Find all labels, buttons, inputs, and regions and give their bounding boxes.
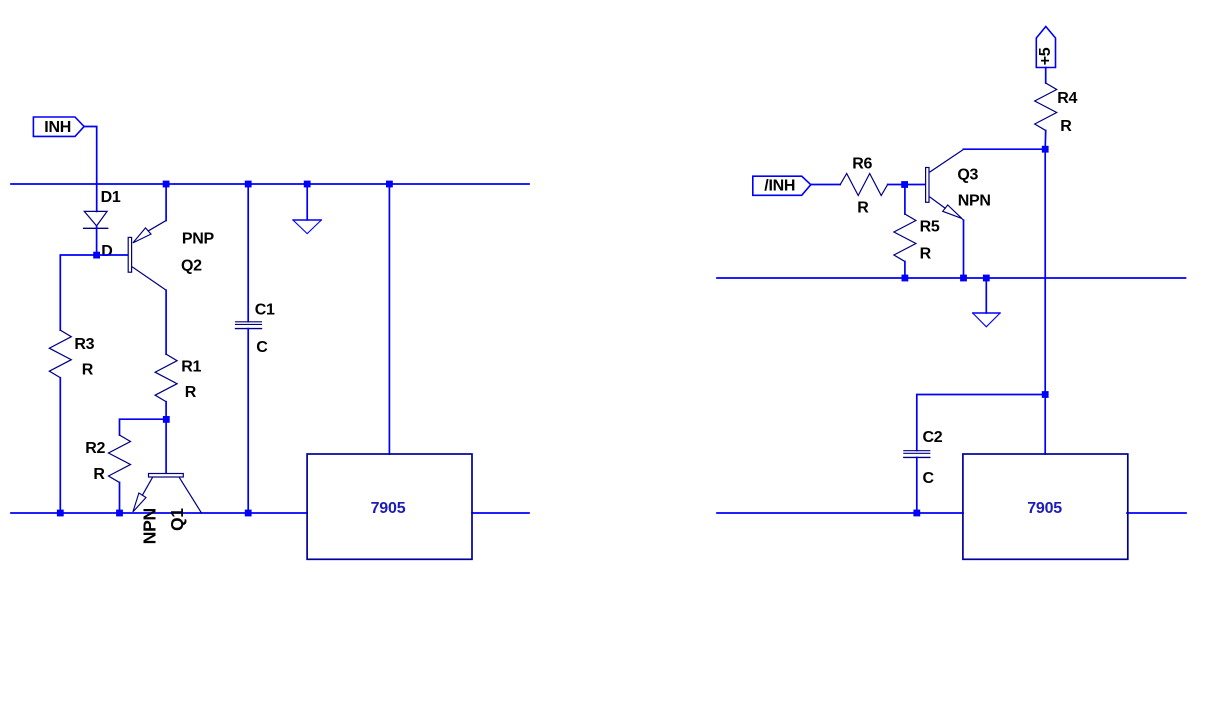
resistor R5 xyxy=(894,214,940,262)
transistor Q1 xyxy=(133,474,202,545)
junction mid rail at R5 xyxy=(902,275,909,282)
supply +5 xyxy=(1036,27,1055,68)
transistor Q2 xyxy=(128,221,214,291)
svg-text:Q3: Q3 xyxy=(957,166,978,183)
svg-text:C: C xyxy=(256,339,268,356)
svg-text:Q2: Q2 xyxy=(181,257,202,274)
wire Q3 collector to node xyxy=(963,148,1045,150)
wire R1 to node xyxy=(165,402,167,420)
resistor R3 xyxy=(49,330,94,378)
wire Q3 emitter to mid rail xyxy=(963,220,965,278)
wire R4 to node xyxy=(1044,131,1047,150)
regulator U1 7905 left xyxy=(307,454,472,559)
transistor Q3 xyxy=(926,150,991,221)
wire from INH xyxy=(84,127,97,212)
svg-text:D: D xyxy=(101,243,112,260)
wire +5 to R4 xyxy=(1045,68,1047,84)
capacitor C1 xyxy=(236,184,276,513)
svg-text:R: R xyxy=(82,362,94,379)
wire output right xyxy=(1127,512,1186,514)
svg-text:NPN: NPN xyxy=(139,508,159,544)
resistor R2 xyxy=(85,435,130,483)
svg-text:C: C xyxy=(923,470,935,487)
svg-text:R: R xyxy=(1060,118,1072,135)
svg-text:R6: R6 xyxy=(852,155,872,172)
wire node to Q1 base xyxy=(165,419,167,473)
junction top rail at C1 xyxy=(245,181,252,188)
svg-text:R2: R2 xyxy=(85,440,105,457)
svg-text:R: R xyxy=(920,245,932,262)
wire node to R2 xyxy=(120,419,167,435)
svg-text:7905: 7905 xyxy=(1027,500,1062,517)
wire collector node down to 7905 xyxy=(1044,149,1046,454)
node D junction xyxy=(93,243,112,260)
svg-text:R: R xyxy=(857,199,869,216)
svg-text:+5: +5 xyxy=(1037,47,1054,65)
ground right xyxy=(973,278,1000,327)
junction mid rail at Q3 emitter xyxy=(960,275,967,282)
junction bottom rail at C1 xyxy=(245,510,252,517)
junction mid rail at ground xyxy=(983,275,990,282)
wire bottom rail left xyxy=(11,512,307,514)
wire Q2 emitter to rail xyxy=(165,184,167,221)
wire node to R5 xyxy=(904,185,906,215)
wire /INH to R6 xyxy=(811,184,840,186)
port INH xyxy=(33,117,84,136)
wire R3 to bottom rail xyxy=(59,378,61,513)
wire R5 to mid rail xyxy=(904,262,906,279)
wire base Q2 xyxy=(97,254,129,256)
svg-text:INH: INH xyxy=(44,119,71,136)
wire R2 to bottom rail xyxy=(119,483,121,514)
svg-text:/INH: /INH xyxy=(764,178,795,195)
svg-text:D1: D1 xyxy=(101,189,121,206)
resistor R1 xyxy=(155,354,201,402)
diode D1 xyxy=(84,189,121,228)
svg-text:7905: 7905 xyxy=(371,500,406,517)
wire bottom rail right xyxy=(717,512,963,514)
capacitor C2 xyxy=(904,429,943,513)
svg-text:C1: C1 xyxy=(255,301,275,318)
junction top rail at ground xyxy=(304,181,311,188)
junction top rail at Q2 emitter xyxy=(163,181,170,188)
junction C2 node xyxy=(1042,391,1049,398)
junction base node Q3 xyxy=(901,181,908,188)
junction collector node xyxy=(1042,146,1049,153)
wire Q2 collector to R1 xyxy=(165,290,167,354)
wire output left xyxy=(472,512,529,514)
wire diode to node D xyxy=(96,226,98,255)
wire R6 to base node xyxy=(888,184,926,186)
svg-text:R5: R5 xyxy=(920,218,940,235)
svg-text:C2: C2 xyxy=(923,429,943,446)
ground left xyxy=(293,184,321,234)
svg-text:PNP: PNP xyxy=(182,230,215,247)
resistor R4 xyxy=(1035,83,1078,135)
junction bottom rail at R2 xyxy=(116,510,123,517)
wire mid rail right xyxy=(717,277,1186,279)
svg-text:R: R xyxy=(185,384,197,401)
junction top rail at 7905 xyxy=(386,181,393,188)
junction bottom rail at C2 xyxy=(913,510,920,517)
wire node D to R3 xyxy=(60,255,96,330)
svg-text:R3: R3 xyxy=(74,336,94,353)
wire top rail left xyxy=(11,183,529,185)
junction bottom rail at R3 xyxy=(57,510,64,517)
node junction R1/R2/Q1 xyxy=(163,416,170,423)
svg-text:NPN: NPN xyxy=(958,192,991,209)
svg-text:R: R xyxy=(93,466,105,483)
svg-text:R4: R4 xyxy=(1057,90,1077,107)
svg-text:R1: R1 xyxy=(181,359,201,376)
svg-text:Q1: Q1 xyxy=(167,508,187,531)
resistor R6 xyxy=(840,155,888,216)
port /INH xyxy=(753,176,811,195)
wire node to C2 xyxy=(917,395,1045,451)
regulator U2 7905 right xyxy=(963,454,1128,559)
wire rail to 7905 input xyxy=(388,184,390,454)
